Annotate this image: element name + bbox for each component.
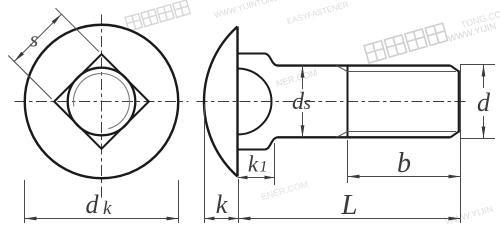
dimension s line with arrows <box>14 14 61 61</box>
svg-text:k: k <box>103 198 112 219</box>
shank bottom line <box>278 136 451 138</box>
svg-text:s: s <box>304 93 311 114</box>
dimension L line with arrows <box>239 218 461 220</box>
square neck bottom profile <box>238 137 279 149</box>
shank circle (front view, bold) <box>68 68 136 136</box>
dimension dk extension lines <box>24 180 26 223</box>
dimension b line with arrows <box>348 176 461 178</box>
svg-text:b: b <box>397 148 411 179</box>
svg-text:d: d <box>477 88 491 117</box>
svg-text:L: L <box>340 189 357 221</box>
watermark fragments (light gray) <box>125 0 500 227</box>
dimension ds line with arrows <box>302 66 304 89</box>
head outline circle dk (front view) <box>25 25 179 179</box>
svg-text:s: s <box>30 27 39 52</box>
end chamfer diagonals <box>451 66 459 72</box>
svg-text:1: 1 <box>260 159 268 176</box>
head face line <box>236 27 238 177</box>
square neck top profile <box>238 54 279 66</box>
svg-text:k: k <box>216 190 228 219</box>
dimension k1 extension line <box>274 143 276 185</box>
thread runout diagonals <box>337 66 348 72</box>
shank top line <box>278 64 451 66</box>
thread minor diameter lines <box>348 71 457 73</box>
dimension dk line with arrows <box>25 218 179 220</box>
square neck (rotated square, front view) <box>54 54 149 149</box>
bolt head dome (side view) <box>204 27 238 177</box>
dimension k extension line <box>204 104 206 223</box>
fillet circle (front view, thin incomplete) <box>73 74 129 129</box>
thread start line <box>347 66 349 138</box>
dimension d extension lines <box>461 64 495 66</box>
bolt end face line <box>458 71 460 133</box>
dimension d line with arrows <box>483 65 485 89</box>
svg-text:d: d <box>86 190 100 219</box>
square neck corner arcs (side view) <box>238 69 272 102</box>
dimension b extension lines <box>347 140 349 183</box>
centerline horizontal (front view) <box>15 101 189 103</box>
svg-text:k: k <box>248 152 259 177</box>
dimension k1 line with arrows <box>238 177 275 179</box>
centerline horizontal (side view) <box>197 101 468 103</box>
dimension s extension lines <box>8 56 52 100</box>
centerline vertical (front view) <box>101 15 103 198</box>
dimension k line with arrows <box>205 218 239 220</box>
